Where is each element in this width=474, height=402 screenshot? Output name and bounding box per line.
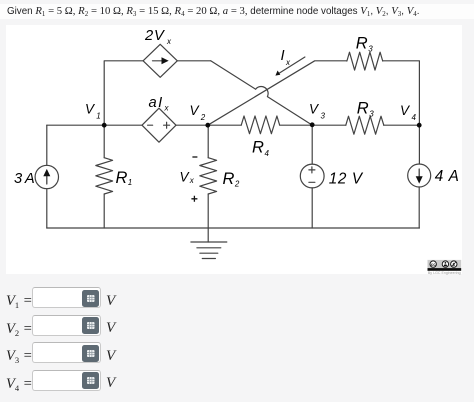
wire: R1 to bottom rail	[103, 194, 105, 228]
dependent source 2Vx diamond	[143, 44, 177, 77]
wire: descending diagonal to V3 with hop	[211, 61, 313, 125]
svg-text:3: 3	[321, 111, 326, 120]
svg-text:3: 3	[368, 45, 373, 54]
label Ix	[281, 48, 292, 67]
svg-text:3 A: 3 A	[14, 171, 34, 187]
label 4 A	[435, 168, 460, 185]
label R2	[223, 170, 240, 189]
svg-text:V: V	[190, 103, 201, 118]
12V minus sign	[309, 181, 315, 183]
current source 3A circle	[35, 165, 58, 188]
voltage source 12V circle	[300, 164, 324, 188]
svg-text:I: I	[281, 48, 285, 64]
answer row V2	[0, 315, 474, 337]
resistor R3 (top)	[347, 52, 383, 70]
wire: R2 to bottom rail	[207, 194, 209, 228]
current source 4A arrow	[416, 169, 423, 184]
label 12 V	[329, 171, 364, 188]
svg-text:V: V	[85, 102, 96, 117]
Vx minus sign	[192, 156, 197, 158]
label Vx across R2	[180, 170, 195, 186]
wire: V4 down to 4A source	[418, 125, 420, 164]
wire: 4A to bottom rail	[418, 187, 420, 228]
Ix current arrow	[275, 57, 305, 76]
wire: lower R3 to V4	[384, 124, 420, 126]
current source 3A arrow	[43, 169, 50, 184]
svg-text:4 A: 4 A	[435, 168, 460, 185]
answer row V3	[0, 342, 474, 364]
label node V2	[190, 103, 206, 122]
wire: R4 to V3	[280, 124, 346, 126]
resistor R1	[96, 158, 113, 194]
svg-text:1: 1	[96, 111, 100, 120]
wire: 12V to bottom rail	[311, 188, 313, 228]
wire: main node rail left segment V1 area	[47, 124, 142, 126]
resistor R2	[200, 158, 217, 194]
current source 4A circle	[408, 164, 431, 187]
label aIx	[149, 95, 170, 113]
wire: V1 up to top rail	[104, 61, 143, 125]
svg-text:2V: 2V	[144, 28, 165, 44]
CC license badge	[428, 260, 462, 275]
svg-text:cc: cc	[431, 262, 436, 267]
svg-text:x: x	[166, 37, 172, 46]
label 3 A	[14, 171, 34, 187]
ground	[191, 242, 227, 259]
label 2Vx	[144, 28, 172, 46]
wire: main rail V2 to R4	[176, 124, 241, 126]
svg-text:R: R	[356, 35, 368, 53]
12V plus sign	[309, 167, 315, 173]
2Vx arrow inside diamond	[153, 57, 169, 64]
svg-text:x: x	[164, 104, 170, 113]
label R3 lower	[357, 100, 375, 119]
svg-text:aI: aI	[149, 95, 164, 111]
label R4	[252, 139, 270, 159]
aIx minus sign inside	[148, 124, 153, 126]
svg-text:x: x	[189, 176, 195, 185]
svg-text:4: 4	[265, 149, 270, 158]
aIx plus sign inside	[164, 122, 170, 128]
wire: bottom rail	[47, 227, 420, 229]
svg-text:V: V	[309, 102, 320, 117]
svg-text:V: V	[400, 103, 411, 118]
wire: V1 down to R1	[103, 125, 105, 158]
label R1	[116, 169, 133, 187]
label R3 top	[356, 35, 374, 54]
wire: ground stem	[207, 228, 209, 242]
wire: ascending diagonal V2 to top right	[208, 61, 347, 125]
wire: top R3 to V4 down right side	[383, 61, 420, 125]
svg-text:2: 2	[200, 113, 206, 122]
wire: left branch vertical (3A branch)	[46, 125, 48, 228]
answer row V1	[0, 287, 474, 309]
svg-text:By LGC Engineering: By LGC Engineering	[428, 271, 461, 275]
svg-text:R: R	[252, 139, 264, 157]
node V3 junction dot	[310, 122, 315, 127]
svg-text:12 V: 12 V	[329, 171, 364, 188]
svg-text:1: 1	[128, 178, 132, 187]
label node V3	[309, 102, 326, 121]
resistor R3 (lower, V3-V4)	[346, 116, 384, 134]
resistor R4	[241, 116, 279, 134]
label node V4	[400, 103, 417, 122]
wire: 2Vx to descending diagonal	[177, 60, 210, 62]
wire: V3 down to 12V source	[311, 125, 313, 164]
svg-text:R: R	[116, 169, 128, 187]
wire: V2 down to R2	[207, 125, 209, 158]
node V1 junction dot	[102, 123, 107, 128]
node V2 junction dot	[205, 123, 210, 128]
Vx plus sign	[191, 196, 197, 202]
svg-text:4: 4	[412, 113, 417, 122]
answer row V4	[0, 370, 474, 392]
svg-text:2: 2	[234, 180, 240, 189]
label node V1	[85, 102, 101, 121]
dependent source aIx diamond	[142, 108, 176, 142]
svg-text:3: 3	[369, 110, 374, 119]
svg-text:R: R	[223, 170, 235, 188]
svg-text:R: R	[357, 100, 369, 118]
node V4 junction dot	[417, 123, 422, 128]
